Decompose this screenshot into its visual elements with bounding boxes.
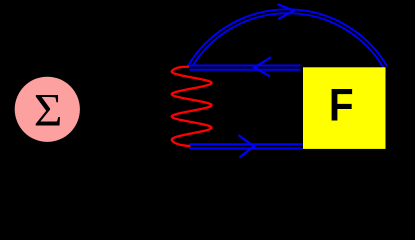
svg-text:Σ: Σ — [34, 85, 63, 136]
svg-text:F: F — [329, 81, 354, 131]
